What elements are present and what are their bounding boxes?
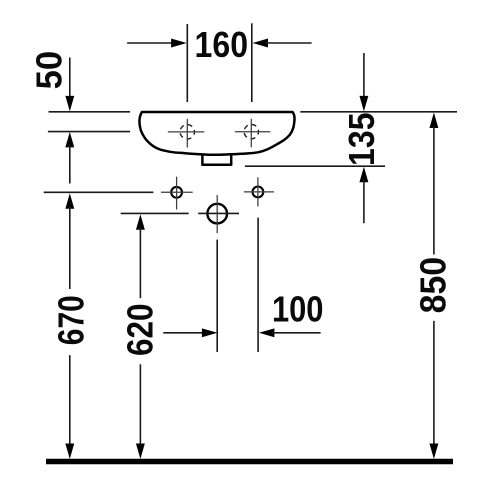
dimension 160: right extension line <box>251 23 253 102</box>
dimension 160: right tail <box>266 42 312 44</box>
sink outline (washbasin front view) <box>139 112 294 155</box>
fixing hole left crosshair <box>161 177 193 210</box>
fixing hole right extension line down <box>257 218 259 352</box>
drain tab under basin <box>202 154 231 165</box>
dimension 100: right arrowhead (points left) <box>259 328 275 337</box>
dimension 670: upper line segment <box>69 207 71 290</box>
reference line bottom of basin right (135 bottom) <box>245 165 385 167</box>
svg-text:160: 160 <box>195 24 249 65</box>
svg-text:100: 100 <box>272 289 324 330</box>
floor line <box>46 459 453 465</box>
dimension 160: left arrowhead <box>171 39 187 48</box>
dimension 135: upper arrow line <box>363 53 365 98</box>
svg-text:620: 620 <box>120 303 161 356</box>
dimension 50: lower arrowhead <box>65 132 74 148</box>
dimension 135: lower arrow tail <box>363 180 365 223</box>
rim reference line left (upper) <box>49 111 131 113</box>
dimension 670: upper arrowhead <box>65 193 74 209</box>
dimension 670: lower line segment <box>69 355 71 446</box>
drain reference line (620 top) <box>121 212 239 214</box>
drain hole (circle) <box>207 204 227 224</box>
tap hole left (dashed circle) <box>180 125 194 139</box>
svg-text:850: 850 <box>412 257 453 314</box>
svg-text:50: 50 <box>28 51 69 90</box>
tap hole left crosshair <box>168 119 205 148</box>
dimension 135: upper arrowhead <box>359 96 368 112</box>
dimension 160: right arrowhead <box>253 39 269 48</box>
fixing hole right (circle) <box>253 187 264 198</box>
dimension 670: lower arrowhead <box>65 444 74 460</box>
reference line left lower (50 bottom) <box>48 131 130 133</box>
dimension 620: lower line segment <box>139 364 141 446</box>
dimension 620: upper arrowhead <box>136 214 145 230</box>
dimension 850: upper line segment <box>433 126 435 255</box>
svg-text:135: 135 <box>341 112 382 166</box>
dimension 50: lower arrow tail <box>69 145 71 184</box>
dimension 850: lower arrowhead <box>429 444 438 460</box>
fixing hole right crosshair <box>244 177 274 206</box>
fixing hole left (circle) <box>171 187 182 198</box>
drain centre extension line down <box>216 240 218 352</box>
dimension 850: upper arrowhead (points up to rim line) <box>429 113 438 129</box>
svg-text:670: 670 <box>50 295 91 345</box>
dimension 620: lower arrowhead <box>136 444 145 460</box>
tap hole right crosshair <box>235 119 270 148</box>
dimension 50: upper arrowhead <box>65 96 74 112</box>
dimension 50: upper arrow line <box>69 58 71 99</box>
drain crosshair vertical <box>216 195 218 233</box>
dimension 100: left arrowhead (points right) <box>202 328 218 337</box>
rim extension line right <box>300 111 457 113</box>
dimension 100: left tail <box>163 332 203 334</box>
dimension 160: left extension line <box>186 24 188 102</box>
dimension 850: lower line segment <box>433 321 435 446</box>
dimension 135: lower arrowhead <box>359 167 368 183</box>
dimension 160: left tail <box>127 42 173 44</box>
tap hole right (dashed circle) <box>244 124 258 138</box>
dimension 100: right tail <box>272 332 321 334</box>
dimension 620: upper line segment <box>139 227 141 298</box>
fixing holes reference line (670 top) <box>44 191 154 193</box>
